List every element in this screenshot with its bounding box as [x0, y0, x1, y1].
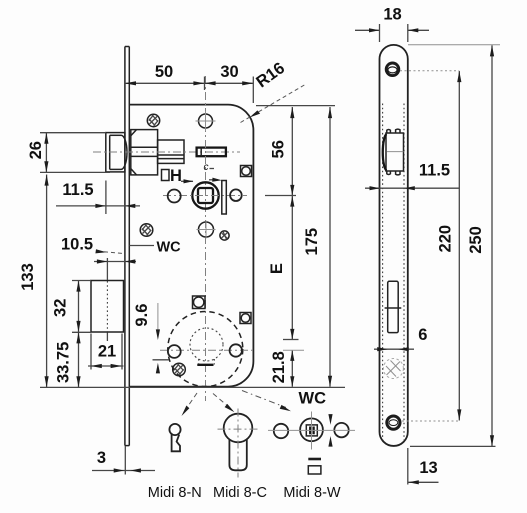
svg-text:WC: WC [299, 390, 327, 408]
faceplate top cap [125, 46, 129, 48]
faceplate bottom cap [125, 445, 129, 447]
dimension 175 [328, 107, 332, 387]
latch bolt head [106, 133, 127, 172]
svg-text:32: 32 [52, 299, 70, 317]
faceplate back edge line [128, 47, 130, 446]
follower square spindle hole [198, 188, 213, 203]
svg-text:33.75: 33.75 [55, 342, 73, 383]
svg-text:21: 21 [98, 343, 116, 361]
euro cylinder hidden circle [190, 328, 223, 361]
svg-text:13: 13 [419, 459, 437, 477]
small hatched hole right of center [220, 231, 229, 240]
hidden WC hole hatched [383, 359, 403, 379]
dimension 220 [400, 71, 461, 421]
screw hole lower-left (hatched) [173, 363, 186, 376]
faceplate outline [380, 45, 408, 446]
bottom extension line [40, 386, 345, 388]
guide pin [197, 148, 226, 157]
svg-text:Midi 8-N: Midi 8-N [148, 485, 202, 501]
deadbolt extension line above [106, 258, 108, 280]
screw hole mid-left (hatched) [140, 224, 153, 237]
dimension 11.5 left view [56, 181, 140, 215]
follower hub circle [192, 182, 218, 208]
dimension 21 [88, 364, 124, 368]
dimension 21.8 [283, 350, 304, 387]
screw with square plate above cylinder [193, 296, 206, 309]
svg-text:3: 3 [97, 449, 106, 467]
hole left of follower [168, 190, 181, 203]
svg-text:6: 6 [418, 326, 427, 344]
latch bolt front view [383, 129, 404, 175]
dimension 133 [45, 175, 49, 388]
dimension 33.75 [76, 332, 80, 387]
dimension 3 faceplate thickness [92, 446, 155, 475]
cylinder centerline [160, 349, 254, 351]
svg-text:Midi 8-W: Midi 8-W [283, 485, 341, 501]
svg-text:133: 133 [19, 263, 37, 291]
svg-text:H: H [170, 167, 182, 185]
dimension 11.5 right view [365, 186, 459, 190]
svg-text:11.5: 11.5 [419, 162, 450, 180]
deadbolt head [91, 281, 124, 333]
svg-text:E: E [268, 263, 286, 274]
svg-text:Midi 8-C: Midi 8-C [213, 485, 267, 501]
stop lever bar [209, 178, 226, 214]
svg-text:26: 26 [27, 141, 45, 159]
svg-text:11.5: 11.5 [62, 181, 93, 199]
leader to euro cylinder variant [213, 394, 235, 413]
dimension 10.5 arrows at faceplate [94, 259, 136, 263]
WC spindle symbol Midi 8-W [268, 412, 355, 450]
hole right of cylinder [230, 344, 242, 356]
dimension 10.5 leader [61, 236, 124, 254]
screw hole top-left (hatched) [147, 114, 159, 126]
dimension 250 [408, 45, 500, 447]
cylinder mounting dashed circle [168, 312, 243, 387]
hole right of follower [230, 189, 242, 201]
svg-text:21.8: 21.8 [270, 351, 288, 383]
leader to keyhole variant [182, 393, 198, 417]
svg-text:9.6: 9.6 [133, 304, 151, 327]
dimension 13 [408, 448, 439, 485]
svg-text:10.5: 10.5 [61, 236, 93, 254]
svg-text:56: 56 [270, 140, 288, 158]
latch body block [131, 130, 158, 175]
euro cylinder hidden stem [197, 359, 214, 365]
svg-text:50: 50 [155, 63, 173, 81]
hole top-middle [196, 111, 216, 131]
WC square height arrows [328, 414, 332, 447]
faceplate front edge line [124, 47, 126, 446]
deadbolt slot [385, 281, 402, 332]
hole with cross below follower [197, 221, 216, 239]
dimension E [283, 196, 299, 340]
leader to WC variant [242, 391, 291, 412]
keyhole symbol Midi 8-N [169, 424, 180, 451]
radius label R16 [241, 59, 307, 123]
dimension 6 slot width [374, 347, 414, 351]
euro profile symbol Midi 8-C [218, 409, 261, 478]
svg-text:30: 30 [220, 63, 238, 81]
dimension 56 [256, 106, 335, 196]
svg-text:175: 175 [303, 228, 321, 256]
svg-text:WC: WC [157, 240, 182, 256]
deadbolt extension lines below [91, 333, 122, 370]
square marker before H [162, 170, 170, 181]
dimension 50/30 line [125, 77, 253, 104]
deadbolt hidden edge dotted [106, 281, 108, 332]
latch centerline [93, 151, 240, 153]
vertical centerline through follower and cylinder [205, 76, 207, 401]
nut on right edge lower [240, 313, 251, 324]
latch tail block [158, 140, 184, 163]
WC small square below [308, 466, 321, 474]
dimension 26 [40, 133, 110, 173]
top screw hole [386, 63, 399, 76]
bottom screw hole [387, 416, 400, 429]
WC leader left view [130, 245, 155, 247]
follower centerline [163, 195, 247, 197]
WC bold dash below [308, 458, 321, 461]
lock case outline [129, 105, 253, 387]
dimension 9.6 [153, 303, 170, 373]
hole left of cylinder [168, 345, 181, 358]
dimension 32 [72, 281, 91, 333]
svg-text:220: 220 [436, 225, 454, 253]
svg-text:250: 250 [467, 226, 485, 254]
hidden latch channel lines [383, 104, 404, 441]
small arrow pointing at follower [181, 179, 193, 183]
nut on right edge upper [241, 166, 252, 177]
centerline symbol c [204, 162, 215, 173]
dimension 18 [355, 24, 429, 42]
svg-text:18: 18 [383, 6, 401, 24]
